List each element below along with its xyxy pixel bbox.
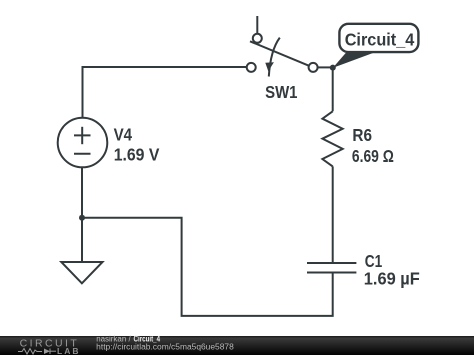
node junction at switch output (330, 65, 336, 71)
svg-text:LAB: LAB (57, 346, 79, 355)
capacitor C1 (307, 263, 356, 273)
svg-text:V4: V4 (114, 124, 133, 144)
switch SW1 (250, 38, 309, 77)
svg-text:http://circuitlab.com/c5ma5q6u: http://circuitlab.com/c5ma5q6ue5878 (96, 342, 234, 351)
svg-text:Circuit_4: Circuit_4 (345, 30, 415, 50)
wire: junction right, down, bottom run to capacitor (82, 218, 333, 316)
svg-text:6.69 Ω: 6.69 Ω (352, 146, 394, 166)
resistor R6 zigzag (322, 111, 342, 166)
wire: V4 bottom to junction (81, 168, 83, 218)
CircuitLab logo resistor zigzag (18, 349, 42, 355)
wire: switch top terminal stub (256, 16, 258, 34)
switch terminal left (247, 63, 256, 72)
wire: node down to resistor R6 top (332, 67, 334, 111)
wire: switch right terminal to node (317, 66, 333, 68)
actuator arc (269, 38, 280, 77)
blade (250, 41, 309, 66)
CircuitLab logo diode (44, 349, 50, 355)
node junction at V4/ground (79, 215, 85, 221)
switch terminal top (253, 34, 262, 43)
callout tail (333, 52, 377, 68)
voltage source V4 (58, 118, 108, 168)
svg-text:1.69 µF: 1.69 µF (364, 269, 420, 289)
svg-text:1.69 V: 1.69 V (114, 145, 160, 165)
switch arrowhead (265, 62, 274, 71)
wire: V4 top to switch left terminal (83, 67, 247, 118)
wire: junction to ground stub (81, 218, 83, 262)
svg-text:SW1: SW1 (265, 82, 298, 102)
callout bubble Circuit_4 (339, 24, 418, 52)
svg-text:R6: R6 (352, 125, 372, 145)
switch terminal right (309, 63, 318, 72)
wire: resistor R6 bottom to capacitor C1 top (332, 166, 334, 263)
ground (61, 262, 102, 283)
